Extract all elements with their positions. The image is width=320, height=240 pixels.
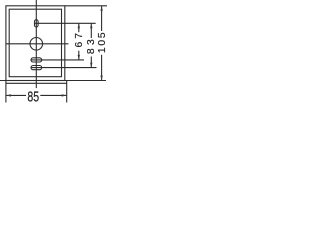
svg-text:6: 6 [74,42,85,48]
svg-text:0: 0 [97,40,108,46]
svg-text:3: 3 [86,39,97,45]
svg-text:1: 1 [97,47,108,53]
svg-text:5: 5 [97,32,108,38]
svg-text:85: 85 [27,88,39,105]
svg-text:7: 7 [74,33,85,39]
svg-text:8: 8 [86,48,97,54]
